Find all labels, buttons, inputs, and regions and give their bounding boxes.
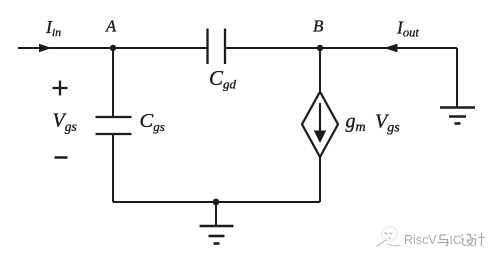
wire node A down to Cgs top plate	[112, 48, 114, 117]
svg-text:Cgs: Cgs	[140, 110, 165, 134]
svg-text:Vgs: Vgs	[53, 110, 77, 135]
wire Cgs bottom plate down to bottom rail	[112, 134, 114, 202]
svg-text:A: A	[105, 16, 117, 35]
node B	[317, 45, 323, 51]
hanzi she	[461, 235, 474, 247]
arrow Iout	[384, 44, 398, 53]
svg-text:Iout: Iout	[396, 18, 419, 40]
svg-text:gm: gm	[346, 111, 366, 136]
wire right vertical drop to ground	[456, 48, 458, 108]
svg-text:RiscV: RiscV	[404, 233, 437, 247]
ground (bottom rail)	[200, 202, 234, 244]
wire node B to top-right corner	[320, 47, 457, 49]
ground (output side)	[440, 108, 475, 124]
dependent current source U1 diamond	[302, 92, 338, 157]
svg-text:Iin: Iin	[45, 17, 61, 39]
label plus polarity	[53, 81, 68, 96]
capacitor Cgs	[96, 117, 132, 134]
svg-text:Cgd: Cgd	[209, 66, 237, 92]
wire node B down to current source top	[319, 48, 321, 92]
wire node A to Cgd left plate	[113, 47, 207, 49]
label minus polarity	[55, 156, 68, 159]
wire bottom rail corner up to current source bottom	[319, 157, 321, 202]
hanzi yu	[438, 235, 450, 246]
hanzi ji	[474, 233, 485, 247]
wire input lead left to node A	[18, 47, 113, 49]
svg-text:IC: IC	[450, 233, 462, 247]
watermark logo	[377, 227, 400, 247]
capacitor Cgd	[208, 29, 226, 65]
svg-text:B: B	[313, 16, 324, 35]
dependent source arrow	[314, 103, 326, 143]
node A	[110, 45, 116, 51]
node (bottom rail junction)	[213, 199, 220, 206]
wire Cgd right plate to node B	[226, 47, 320, 49]
svg-text:Vgs: Vgs	[375, 111, 400, 136]
wire bottom rail	[113, 201, 320, 203]
arrow Iin	[39, 44, 52, 53]
